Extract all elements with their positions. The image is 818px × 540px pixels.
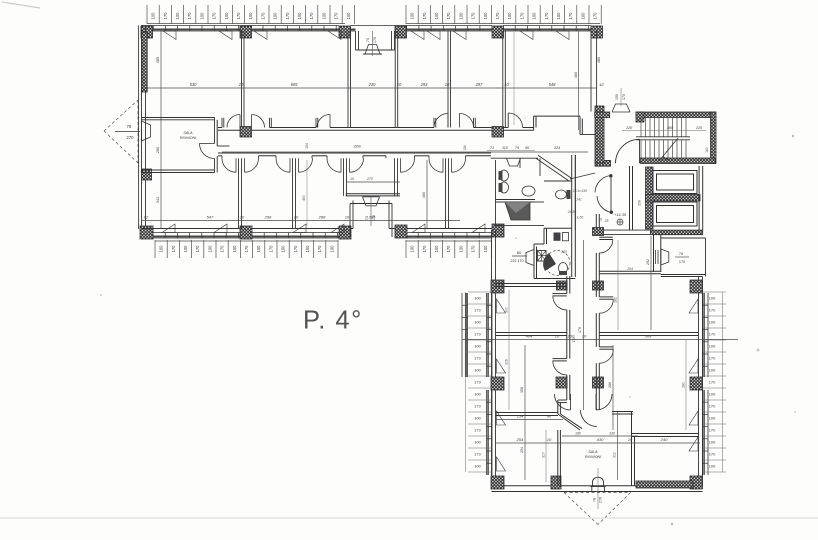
svg-text:10: 10	[345, 215, 350, 220]
svg-text:100: 100	[199, 12, 204, 20]
svg-text:1,50: 1,50	[577, 216, 584, 220]
svg-text:312: 312	[613, 452, 617, 458]
svg-text:258: 258	[638, 200, 642, 206]
svg-text:120: 120	[696, 126, 703, 130]
svg-text:286: 286	[608, 382, 612, 388]
svg-text:100: 100	[507, 12, 512, 20]
svg-text:28: 28	[604, 219, 609, 223]
svg-text:10: 10	[397, 82, 402, 87]
svg-text:230: 230	[368, 82, 377, 87]
svg-text:170: 170	[260, 12, 265, 20]
svg-text:170: 170	[709, 380, 716, 385]
svg-text:100: 100	[474, 464, 481, 469]
svg-text:240: 240	[660, 437, 668, 442]
svg-text:170: 170	[572, 337, 576, 343]
svg-text:42: 42	[599, 82, 604, 87]
svg-text:605: 605	[291, 82, 299, 87]
svg-text:569: 569	[645, 334, 652, 339]
svg-text:100: 100	[458, 12, 463, 20]
svg-text:292: 292	[646, 259, 650, 265]
svg-text:170: 170	[171, 245, 176, 253]
svg-text:100: 100	[474, 440, 481, 445]
svg-text:100: 100	[273, 12, 278, 20]
svg-text:170: 170	[474, 380, 481, 385]
svg-text:288: 288	[318, 215, 326, 220]
svg-text:170: 170	[163, 12, 168, 20]
svg-text:170: 170	[373, 37, 377, 43]
svg-text:170: 170	[544, 12, 549, 20]
svg-text:170: 170	[709, 356, 716, 361]
svg-text:100: 100	[709, 344, 716, 349]
svg-text:100: 100	[709, 440, 716, 445]
svg-text:460: 460	[422, 192, 426, 198]
svg-text:170: 170	[622, 94, 626, 100]
svg-text:190: 190	[575, 432, 581, 436]
svg-text:100: 100	[183, 245, 188, 253]
svg-text:154: 154	[305, 143, 309, 149]
svg-text:100: 100	[151, 12, 156, 20]
svg-text:170: 170	[187, 12, 192, 20]
svg-text:170: 170	[212, 12, 217, 20]
svg-text:360: 360	[667, 126, 674, 130]
svg-text:100: 100	[709, 392, 716, 397]
svg-text:10: 10	[350, 177, 354, 181]
svg-text:78: 78	[679, 252, 683, 256]
svg-text:10: 10	[294, 215, 299, 220]
svg-text:78: 78	[592, 498, 596, 502]
svg-text:100: 100	[297, 12, 302, 20]
svg-text:100: 100	[709, 320, 716, 325]
svg-text:295: 295	[368, 215, 376, 220]
svg-text:100: 100	[483, 245, 488, 253]
svg-text:170: 170	[244, 245, 249, 253]
svg-text:170: 170	[334, 12, 339, 20]
svg-text:170: 170	[709, 404, 716, 409]
svg-text:10: 10	[547, 437, 552, 442]
svg-text:RIUNIONI: RIUNIONI	[180, 136, 196, 140]
svg-text:100: 100	[709, 416, 716, 421]
svg-text:330: 330	[609, 432, 615, 436]
svg-text:170: 170	[519, 12, 524, 20]
svg-text:254: 254	[516, 415, 523, 419]
svg-text:76: 76	[598, 218, 602, 222]
svg-text:170: 170	[236, 12, 241, 20]
svg-text:170: 170	[474, 404, 481, 409]
svg-text:100: 100	[224, 12, 229, 20]
svg-text:10: 10	[582, 334, 587, 339]
svg-text:280: 280	[682, 382, 686, 388]
svg-text:SALA: SALA	[588, 450, 598, 454]
svg-text:10: 10	[628, 437, 633, 442]
svg-text:222 170: 222 170	[511, 259, 524, 263]
svg-text:100: 100	[474, 392, 481, 397]
svg-text:100: 100	[474, 320, 481, 325]
svg-text:460: 460	[302, 195, 306, 201]
svg-text:170: 170	[317, 245, 322, 253]
svg-text:100: 100	[175, 12, 180, 20]
svg-text:170: 170	[471, 245, 476, 253]
svg-text:548: 548	[549, 82, 557, 87]
svg-text:SALA: SALA	[183, 131, 193, 135]
svg-text:10: 10	[239, 82, 244, 87]
svg-text:100: 100	[709, 464, 716, 469]
svg-text:10: 10	[504, 82, 509, 87]
svg-text:547: 547	[207, 215, 214, 220]
svg-text:270: 270	[599, 497, 603, 503]
svg-text:62: 62	[144, 215, 149, 220]
svg-text:344: 344	[156, 197, 160, 203]
svg-text:120: 120	[626, 126, 633, 130]
svg-text:70: 70	[366, 38, 370, 42]
svg-text:170: 170	[293, 245, 298, 253]
svg-text:293: 293	[420, 82, 429, 87]
svg-text:1590: 1590	[353, 145, 361, 149]
svg-text:78: 78	[127, 124, 132, 129]
svg-text:170: 170	[422, 245, 427, 253]
svg-text:480: 480	[597, 57, 601, 63]
svg-text:280: 280	[156, 147, 160, 153]
svg-text:158: 158	[463, 145, 467, 151]
svg-text:317: 317	[542, 452, 546, 458]
svg-text:170: 170	[709, 308, 716, 313]
svg-text:150: 150	[615, 94, 619, 100]
svg-text:404: 404	[526, 334, 533, 339]
svg-text:170: 170	[568, 12, 573, 20]
svg-text:485: 485	[156, 57, 160, 63]
svg-text:170: 170	[709, 332, 716, 337]
svg-text:100: 100	[580, 12, 585, 20]
svg-text:100: 100	[256, 245, 261, 253]
svg-text:100: 100	[248, 12, 253, 20]
svg-text:100: 100	[709, 368, 716, 373]
svg-text:71: 71	[490, 146, 494, 150]
svg-text:100: 100	[305, 245, 310, 253]
svg-text:110: 110	[502, 146, 509, 150]
svg-text:170: 170	[285, 12, 290, 20]
svg-text:141: 141	[576, 198, 582, 202]
svg-text:300: 300	[505, 307, 509, 313]
svg-text:170: 170	[220, 245, 225, 253]
svg-text:P. 4°: P. 4°	[303, 307, 363, 335]
svg-text:324: 324	[554, 146, 560, 150]
svg-text:100: 100	[410, 12, 415, 20]
svg-text:170: 170	[471, 12, 476, 20]
svg-text:100: 100	[410, 245, 415, 253]
svg-text:170: 170	[474, 428, 481, 433]
svg-text:100: 100	[474, 368, 481, 373]
svg-text:530: 530	[190, 82, 198, 87]
svg-text:170: 170	[309, 12, 314, 20]
svg-text:100: 100	[709, 296, 716, 301]
svg-text:170: 170	[593, 12, 598, 20]
svg-text:170: 170	[446, 12, 451, 20]
svg-text:100: 100	[281, 245, 286, 253]
svg-text:170: 170	[709, 452, 716, 457]
svg-text:100: 100	[556, 12, 561, 20]
svg-text:100: 100	[483, 12, 488, 20]
svg-text:358: 358	[520, 387, 524, 393]
svg-text:100: 100	[159, 245, 164, 253]
svg-text:170: 170	[495, 12, 500, 20]
svg-text:100: 100	[458, 245, 463, 253]
svg-text:254: 254	[626, 267, 633, 271]
svg-text:130: 130	[561, 250, 567, 254]
svg-text:+14,35: +14,35	[614, 212, 627, 217]
svg-text:270: 270	[127, 135, 135, 140]
svg-text:100: 100	[321, 12, 326, 20]
svg-text:RIUNIONI: RIUNIONI	[585, 455, 601, 459]
svg-text:100: 100	[329, 245, 334, 253]
svg-text:100: 100	[207, 245, 212, 253]
svg-text:100: 100	[346, 12, 351, 20]
svg-text:460: 460	[574, 72, 578, 78]
svg-text:306: 306	[505, 359, 509, 365]
svg-text:10: 10	[555, 334, 560, 339]
svg-text:170: 170	[474, 308, 481, 313]
svg-text:100: 100	[474, 344, 481, 349]
svg-text:170: 170	[268, 245, 273, 253]
svg-text:100: 100	[532, 12, 537, 20]
svg-text:170: 170	[578, 327, 582, 333]
svg-text:282: 282	[614, 297, 618, 303]
svg-text:10: 10	[445, 82, 450, 87]
svg-text:170: 170	[679, 260, 685, 264]
svg-text:170: 170	[446, 245, 451, 253]
svg-text:100: 100	[434, 245, 439, 253]
svg-text:170: 170	[474, 332, 481, 337]
svg-text:180: 180	[705, 147, 709, 153]
svg-text:80: 80	[517, 250, 522, 255]
svg-text:100: 100	[474, 416, 481, 421]
svg-text:296: 296	[264, 215, 272, 220]
svg-text:170: 170	[709, 428, 716, 433]
svg-text:270: 270	[366, 177, 373, 181]
svg-text:10: 10	[240, 215, 245, 220]
svg-text:170: 170	[195, 245, 200, 253]
svg-text:170: 170	[422, 12, 427, 20]
svg-text:100: 100	[232, 245, 237, 253]
svg-text:254: 254	[520, 447, 524, 453]
svg-text:170: 170	[474, 452, 481, 457]
svg-text:100: 100	[434, 12, 439, 20]
svg-text:430: 430	[597, 437, 604, 442]
svg-text:170: 170	[474, 356, 481, 361]
svg-text:254: 254	[516, 437, 524, 442]
svg-text:297: 297	[475, 82, 484, 87]
svg-text:100: 100	[474, 296, 481, 301]
